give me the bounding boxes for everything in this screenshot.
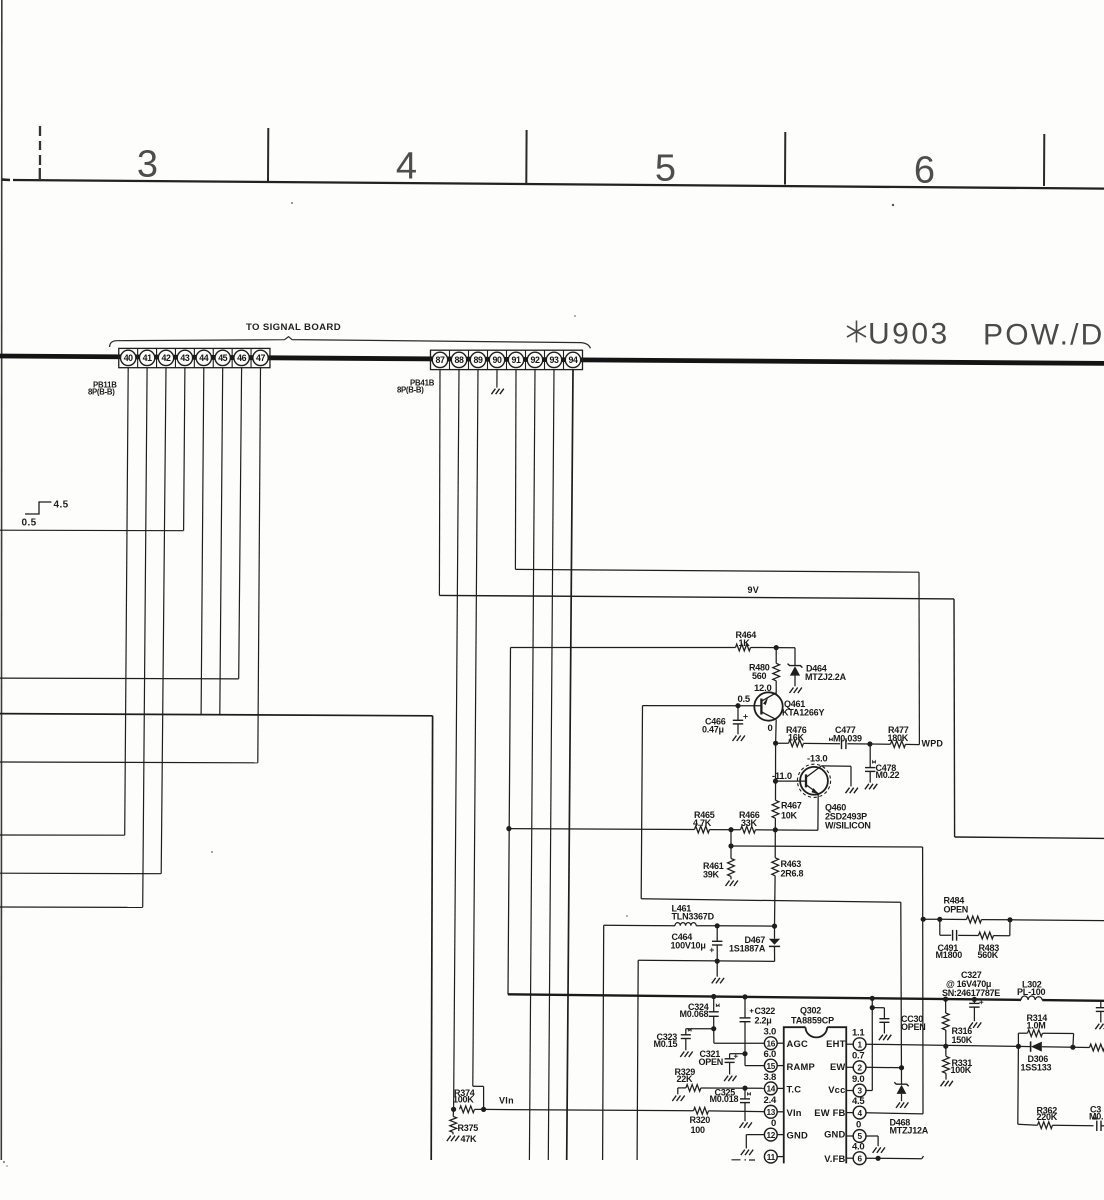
capacitor C324 bbox=[713, 996, 715, 1011]
svg-text:4: 4 bbox=[396, 146, 417, 188]
wire pin1 EHT net bbox=[865, 1044, 1018, 1046]
svg-text:0.5: 0.5 bbox=[22, 518, 37, 529]
wire pin91 net horizontal bbox=[515, 569, 919, 572]
svg-text:KTA1266Y: KTA1266Y bbox=[782, 708, 824, 718]
svg-text:OPEN: OPEN bbox=[699, 1057, 724, 1067]
wire to C323 bbox=[686, 1028, 714, 1030]
wire pin91 bbox=[514, 370, 517, 570]
wire vertical from long net bbox=[431, 716, 432, 1160]
pin 41 circle bbox=[139, 350, 154, 365]
ground C478 bbox=[865, 784, 877, 790]
wire long net to left edge bbox=[0, 714, 433, 716]
pin 43 circle bbox=[177, 350, 192, 365]
wire pin46 bbox=[239, 368, 242, 679]
IC pin 11 bbox=[764, 1150, 777, 1163]
IC pin 1 bbox=[853, 1038, 866, 1051]
wire pin6 V.FB bbox=[865, 1157, 921, 1160]
IC pin 3 bbox=[853, 1084, 866, 1097]
resistor R461 bbox=[730, 846, 732, 858]
wire pin2 EW bbox=[865, 1066, 901, 1068]
IC pin 14 bbox=[764, 1082, 777, 1095]
capacitor C478 bbox=[869, 744, 871, 768]
wire pin43 bbox=[184, 368, 185, 531]
resistor R331 bbox=[945, 1046, 947, 1056]
svg-text:POW./D: POW./D bbox=[983, 319, 1104, 352]
resistor R362 branch bbox=[1017, 1046, 1020, 1124]
resistor R374 bbox=[460, 1106, 475, 1113]
pin 87 circle bbox=[432, 352, 447, 367]
svg-text:AGC: AGC bbox=[787, 1038, 808, 1049]
svg-text:PL-100: PL-100 bbox=[1017, 987, 1046, 997]
wire base net vertical down bbox=[641, 706, 642, 899]
step waveform 0.5/4.5 bbox=[25, 502, 52, 514]
ground R461 bbox=[726, 881, 738, 887]
junction node R465/R466/R461 bbox=[728, 827, 733, 832]
svg-text:150K: 150K bbox=[952, 1035, 973, 1045]
bus Vcc rail bbox=[508, 994, 1021, 1000]
svg-text:M0.: M0. bbox=[1089, 1112, 1103, 1122]
svg-text:RAMP: RAMP bbox=[787, 1061, 815, 1072]
resistor R477 bbox=[870, 743, 891, 745]
junction node R314 right bbox=[1070, 1045, 1075, 1050]
svg-text:TA8859CP: TA8859CP bbox=[791, 1016, 834, 1026]
capacitor C464 bbox=[716, 926, 718, 942]
pin 88 circle bbox=[451, 352, 466, 367]
ground right edge partial bbox=[1095, 1024, 1104, 1029]
svg-text:GND: GND bbox=[787, 1129, 808, 1140]
ruler tick 3 bbox=[784, 132, 786, 185]
capacitor C327 bbox=[973, 999, 975, 1003]
junction node R463 top bbox=[773, 827, 778, 832]
svg-text:5: 5 bbox=[655, 148, 676, 190]
ground D468 bbox=[896, 1102, 908, 1108]
svg-text:42: 42 bbox=[162, 353, 171, 363]
svg-text:87: 87 bbox=[436, 355, 445, 365]
svg-text:560: 560 bbox=[752, 671, 767, 681]
svg-text:4.0: 4.0 bbox=[852, 1142, 864, 1153]
junction node C491 top bbox=[937, 917, 942, 922]
IC pin 2 bbox=[853, 1061, 866, 1074]
svg-text:1S1887A: 1S1887A bbox=[729, 944, 766, 954]
IC pin 13 bbox=[764, 1105, 777, 1118]
wire pin47 bbox=[258, 368, 261, 763]
svg-text:1K: 1K bbox=[739, 638, 751, 648]
wire 9V rail horizontal bbox=[439, 595, 954, 599]
svg-text:100V10μ: 100V10μ bbox=[671, 941, 706, 951]
ruler line bbox=[2, 178, 10, 181]
svg-text:92: 92 bbox=[531, 355, 540, 365]
IC pin 16 bbox=[764, 1037, 777, 1050]
svg-text:12: 12 bbox=[767, 1131, 776, 1140]
junction node base Q460 bbox=[773, 779, 778, 784]
svg-text:4.7K: 4.7K bbox=[693, 818, 712, 828]
svg-text:MTZJ12A: MTZJ12A bbox=[890, 1126, 929, 1136]
svg-text:14: 14 bbox=[767, 1085, 776, 1094]
svg-text:Q302: Q302 bbox=[800, 1006, 821, 1016]
dash-dot stub pin 11 bbox=[732, 1159, 756, 1161]
svg-text:EHT: EHT bbox=[826, 1038, 845, 1049]
resistor R467 bbox=[775, 743, 777, 800]
svg-text:R320: R320 bbox=[690, 1115, 711, 1125]
IC pin 12 bbox=[764, 1128, 777, 1141]
ground CC30 bbox=[879, 1035, 891, 1041]
transistor Q461 bbox=[754, 692, 782, 720]
svg-text:EW: EW bbox=[830, 1061, 846, 1072]
resistor R315 partial bbox=[1090, 1044, 1104, 1051]
svg-text:45: 45 bbox=[218, 353, 227, 363]
resistor R329 bbox=[678, 1087, 686, 1089]
junction node C324 bottom bbox=[711, 1026, 716, 1031]
svg-text:2.2μ: 2.2μ bbox=[755, 1016, 772, 1026]
svg-text:39K: 39K bbox=[703, 870, 720, 880]
pin 42 circle bbox=[158, 350, 173, 365]
svg-text:41: 41 bbox=[143, 353, 152, 363]
svg-text:13: 13 bbox=[767, 1108, 776, 1117]
svg-text:V.FB: V.FB bbox=[824, 1153, 845, 1164]
svg-text:MTZJ2.2A: MTZJ2.2A bbox=[805, 672, 847, 682]
ground C321 bbox=[724, 1076, 736, 1082]
svg-text:0.5: 0.5 bbox=[738, 694, 751, 705]
pin 40 circle bbox=[121, 350, 136, 365]
resistor R314 loop bbox=[1017, 1033, 1019, 1046]
connector PB11B body bbox=[119, 348, 270, 367]
capacitor CC30 bbox=[872, 1007, 884, 1009]
svg-text:VIn: VIn bbox=[499, 1096, 514, 1106]
resistor R320 bbox=[694, 1107, 709, 1114]
capacitor C466 bbox=[737, 706, 739, 721]
svg-text:220K: 220K bbox=[1037, 1112, 1058, 1122]
capacitor C323 bbox=[681, 1034, 691, 1036]
svg-text:M0.15: M0.15 bbox=[654, 1039, 678, 1049]
svg-text:6: 6 bbox=[914, 150, 935, 192]
svg-text:90: 90 bbox=[493, 355, 502, 365]
svg-text:M0.068: M0.068 bbox=[680, 1009, 709, 1019]
resistor R464 bbox=[511, 647, 736, 649]
resistor R480 bbox=[775, 648, 777, 664]
svg-text:0: 0 bbox=[856, 1119, 861, 1130]
junction node R465 line left bbox=[506, 826, 511, 831]
ground pin12 bbox=[741, 1150, 753, 1156]
wire Q461 collector down bbox=[775, 720, 778, 744]
pin 47 circle bbox=[253, 350, 268, 365]
wire y961 left vertical bbox=[637, 960, 638, 1160]
junction node R374 left bbox=[451, 1107, 456, 1112]
capacitor C3xx partial right edge bbox=[1096, 1121, 1098, 1131]
junction node C325 bbox=[742, 1086, 747, 1091]
wire net pin41 to left edge bbox=[0, 906, 143, 908]
svg-text:-13.0: -13.0 bbox=[807, 754, 827, 765]
junction node base/C466 bbox=[735, 703, 740, 708]
pin 93 circle bbox=[546, 352, 561, 367]
wire R464 left vertical bbox=[508, 648, 511, 995]
svg-text:3: 3 bbox=[137, 144, 158, 186]
svg-text:46: 46 bbox=[237, 353, 246, 363]
svg-text:R463: R463 bbox=[781, 859, 802, 869]
junction node C464 top bbox=[715, 923, 720, 928]
svg-text:8P(B-B): 8P(B-B) bbox=[88, 388, 115, 397]
svg-text:WPD: WPD bbox=[922, 739, 944, 749]
wire base net to left bbox=[643, 705, 739, 707]
wire to pin 15 bbox=[745, 1065, 765, 1067]
svg-text:2.4: 2.4 bbox=[764, 1095, 777, 1106]
wire pin87 bbox=[438, 370, 441, 596]
wire L461 to D467 bbox=[717, 925, 774, 927]
wire net pin42 to left edge bbox=[0, 872, 161, 875]
wire EW FB net vertical bbox=[922, 847, 924, 1114]
svg-text:VIn: VIn bbox=[787, 1107, 802, 1118]
junction node C324 top bbox=[711, 994, 716, 999]
junction node R484 left bbox=[921, 917, 926, 922]
zener diode D464 bbox=[788, 664, 803, 668]
pin 45 circle bbox=[215, 350, 230, 365]
ruler tick 1 bbox=[267, 128, 269, 181]
ground C466 bbox=[733, 736, 745, 742]
connector PB41B body bbox=[431, 350, 583, 369]
svg-text:0.47μ: 0.47μ bbox=[702, 725, 724, 735]
capacitor C477 bbox=[841, 738, 843, 749]
capacitor C491 / resistor R483 parallel branch bbox=[939, 919, 941, 935]
junction node C327 bbox=[972, 997, 977, 1002]
svg-text:0: 0 bbox=[771, 1118, 776, 1129]
ground Q460 collector bbox=[846, 788, 858, 794]
svg-text:Vcc: Vcc bbox=[828, 1084, 845, 1095]
wire pin41 bbox=[143, 368, 147, 908]
ground R329 bbox=[672, 1096, 684, 1102]
svg-text:94: 94 bbox=[569, 355, 578, 365]
svg-text:11: 11 bbox=[767, 1153, 776, 1162]
svg-text:R375: R375 bbox=[458, 1123, 479, 1133]
ground D464 bbox=[790, 688, 802, 694]
svg-text:1.0M: 1.0M bbox=[1027, 1021, 1046, 1031]
svg-text:47K: 47K bbox=[461, 1134, 478, 1144]
wire to pin 16 bbox=[713, 1029, 715, 1044]
capacitor C325 bbox=[744, 1088, 746, 1099]
wire EW net vertical to D468 bbox=[900, 902, 903, 1084]
wire Q460 emitter down bbox=[817, 794, 819, 831]
ground C325 bbox=[740, 1122, 752, 1128]
svg-text:W/SILICON: W/SILICON bbox=[825, 821, 871, 831]
svg-text:4.5: 4.5 bbox=[54, 500, 69, 511]
svg-text:16K: 16K bbox=[788, 733, 805, 743]
wire pin45 bbox=[220, 368, 223, 715]
svg-text:1: 1 bbox=[857, 1040, 862, 1049]
junction node collector/R476/R467 bbox=[773, 741, 778, 746]
IC Q302 TA8859CP body bbox=[806, 1027, 828, 1037]
wire R461 branch bbox=[730, 830, 732, 846]
IC pin 4 bbox=[853, 1106, 866, 1119]
svg-text:M0.018: M0.018 bbox=[710, 1094, 739, 1104]
wire pin88 bbox=[454, 370, 459, 1110]
wire pin44 bbox=[201, 368, 204, 715]
svg-text:89: 89 bbox=[474, 355, 483, 365]
svg-text:C322: C322 bbox=[755, 1006, 776, 1016]
pin 91 circle bbox=[508, 352, 523, 367]
svg-text:U903: U903 bbox=[868, 318, 950, 351]
ruler tick 4 bbox=[1043, 134, 1045, 186]
svg-text:93: 93 bbox=[550, 355, 559, 365]
junction node Vcc on bus bbox=[870, 996, 875, 1001]
svg-text:1.1: 1.1 bbox=[852, 1028, 865, 1039]
svg-text:15: 15 bbox=[767, 1062, 776, 1071]
svg-text:10K: 10K bbox=[781, 811, 798, 821]
junction node R464/R480/D464 bbox=[774, 645, 779, 650]
junction node C322 top bbox=[742, 994, 747, 999]
wire EHT to right edge bbox=[1073, 1046, 1090, 1048]
wire C464 ground stub bbox=[716, 961, 718, 977]
svg-text:16: 16 bbox=[767, 1039, 776, 1048]
svg-text:5: 5 bbox=[857, 1132, 862, 1141]
junction node CC30 branch bbox=[870, 1005, 875, 1010]
resistor R316 bbox=[945, 999, 947, 1013]
ruler tick 2 bbox=[525, 130, 527, 183]
wire pin92 bbox=[529, 370, 535, 1160]
IC pin 6 bbox=[853, 1152, 866, 1165]
resistor R375 bbox=[452, 1109, 454, 1116]
svg-text:TO SIGNAL BOARD: TO SIGNAL BOARD bbox=[246, 322, 341, 333]
inductor L302 bbox=[1021, 996, 1042, 1000]
svg-text:100K: 100K bbox=[453, 1095, 474, 1105]
wire pin42 bbox=[161, 368, 166, 874]
wire pin94 bbox=[567, 370, 573, 1160]
wire net pin46 to left edge bbox=[0, 677, 239, 680]
junction node R316 top bbox=[943, 997, 948, 1002]
wire Q460 base bbox=[776, 780, 807, 782]
svg-text:8P(B-B): 8P(B-B) bbox=[397, 386, 424, 395]
svg-text:4: 4 bbox=[857, 1109, 862, 1118]
wire ground net y961 bbox=[638, 960, 774, 961]
wire net pin43 to left edge bbox=[0, 529, 184, 532]
capacitor right edge partial bbox=[1100, 1001, 1102, 1008]
left page border bbox=[0, 0, 3, 1160]
wire EW net horizontal bbox=[641, 899, 901, 903]
svg-text:M0.039: M0.039 bbox=[833, 733, 862, 743]
transistor Q460 bbox=[800, 767, 828, 795]
ruler tick dashed left bbox=[39, 126, 42, 180]
IC pin 15 bbox=[764, 1059, 777, 1072]
svg-text:47: 47 bbox=[256, 353, 265, 363]
junction node R316/R331 bbox=[943, 1044, 948, 1049]
zener diode D468 bbox=[894, 1082, 908, 1086]
wire L461 left vertical bbox=[603, 925, 604, 1160]
resistor R465 bbox=[509, 828, 695, 831]
svg-text:M1800: M1800 bbox=[936, 950, 963, 960]
junction node R374 right bbox=[481, 1107, 486, 1112]
svg-text:T.C: T.C bbox=[787, 1083, 802, 1094]
svg-text:R467: R467 bbox=[781, 801, 802, 811]
wire Q460 collector to ground bbox=[821, 765, 851, 767]
svg-text:1SS133: 1SS133 bbox=[1021, 1063, 1052, 1073]
wire EW FB net horizontal bbox=[731, 846, 923, 847]
svg-text:9V: 9V bbox=[748, 585, 760, 595]
svg-text:6: 6 bbox=[857, 1154, 862, 1163]
resistor R476 bbox=[776, 742, 789, 744]
wire pin89 jog bbox=[473, 1085, 484, 1087]
svg-text:100K: 100K bbox=[951, 1065, 972, 1075]
inductor L461 bbox=[604, 924, 675, 926]
wire pin93 bbox=[548, 370, 554, 1160]
pin 94 circle bbox=[565, 352, 580, 367]
svg-text:SN:24617787E: SN:24617787E bbox=[942, 988, 1000, 998]
svg-text:88: 88 bbox=[455, 355, 464, 365]
svg-text:40: 40 bbox=[124, 353, 133, 363]
svg-text:3.0: 3.0 bbox=[764, 1027, 776, 1038]
wire pin90 stub bbox=[496, 370, 498, 388]
speck bbox=[3, 1161, 5, 1163]
title reference-mark star bbox=[847, 321, 866, 343]
junction node C321 bbox=[742, 1051, 747, 1056]
svg-text:44: 44 bbox=[199, 353, 208, 363]
ground C323 bbox=[680, 1052, 692, 1058]
svg-text:100: 100 bbox=[691, 1125, 706, 1135]
resistor R484 bbox=[923, 918, 940, 920]
wire net pin40 to left edge bbox=[0, 834, 125, 836]
wire pin40 bbox=[125, 368, 129, 835]
svg-text:OPEN: OPEN bbox=[944, 905, 969, 915]
svg-text:2: 2 bbox=[857, 1064, 862, 1073]
wire pin5 ground bbox=[865, 1135, 878, 1137]
svg-text:43: 43 bbox=[180, 353, 189, 363]
junction node R314/D306/R362 bbox=[1016, 1044, 1021, 1049]
junction node C477/R477/C478 bbox=[867, 741, 872, 746]
wire to D464 bbox=[776, 647, 795, 649]
svg-text:9.0: 9.0 bbox=[852, 1074, 864, 1085]
svg-text:0.7: 0.7 bbox=[852, 1051, 864, 1062]
svg-text:M0.22: M0.22 bbox=[876, 770, 900, 780]
wire 9V rail exit right bbox=[955, 837, 1104, 838]
svg-text:3: 3 bbox=[857, 1087, 862, 1096]
wire pin91 net vertical to WPD bbox=[918, 572, 920, 744]
bus board edge thick line bbox=[0, 356, 1104, 363]
ground R375 bbox=[447, 1136, 459, 1142]
ground C464 bbox=[712, 978, 724, 984]
pin 46 circle bbox=[234, 350, 249, 365]
wire pin3 Vcc bbox=[865, 1090, 872, 1092]
svg-text:6.0: 6.0 bbox=[764, 1049, 776, 1060]
wire pin12 ground bbox=[746, 1134, 765, 1136]
capacitor C322 bbox=[744, 997, 746, 1018]
svg-text:GND: GND bbox=[824, 1129, 845, 1140]
diode D467 bbox=[774, 926, 776, 939]
svg-text:91: 91 bbox=[512, 355, 521, 365]
svg-text:TLN3367D: TLN3367D bbox=[672, 912, 715, 922]
wire VIn net bbox=[484, 1109, 694, 1110]
svg-text:OPEN: OPEN bbox=[901, 1022, 926, 1032]
svg-text:33K: 33K bbox=[741, 818, 758, 828]
wire R484 net to right edge bbox=[1010, 919, 1104, 922]
resistor R463 bbox=[774, 830, 776, 858]
ground C327 bbox=[969, 1022, 981, 1028]
junction node D468 bbox=[899, 1065, 904, 1070]
ground pin5 bbox=[873, 1147, 885, 1153]
svg-text:4.5: 4.5 bbox=[852, 1096, 865, 1107]
junction node R483 top bbox=[1007, 917, 1012, 922]
wire net pin47 to left edge bbox=[0, 761, 258, 764]
IC pin 5 bbox=[853, 1130, 866, 1143]
pin 92 circle bbox=[527, 352, 542, 367]
junction node EW-FB line bbox=[728, 843, 733, 848]
pin 90 circle bbox=[489, 352, 504, 367]
svg-text:180K: 180K bbox=[888, 733, 909, 743]
pin 44 circle bbox=[196, 350, 211, 365]
svg-text:0: 0 bbox=[768, 723, 773, 734]
wire pin89 bbox=[473, 370, 478, 1087]
wire 9V rail right vertical bbox=[953, 599, 956, 837]
pin 89 circle bbox=[470, 352, 485, 367]
svg-text:560K: 560K bbox=[978, 950, 999, 960]
resistor R466 bbox=[741, 826, 756, 833]
capacitor C321 bbox=[730, 1053, 745, 1055]
svg-text:EW FB: EW FB bbox=[814, 1107, 845, 1118]
